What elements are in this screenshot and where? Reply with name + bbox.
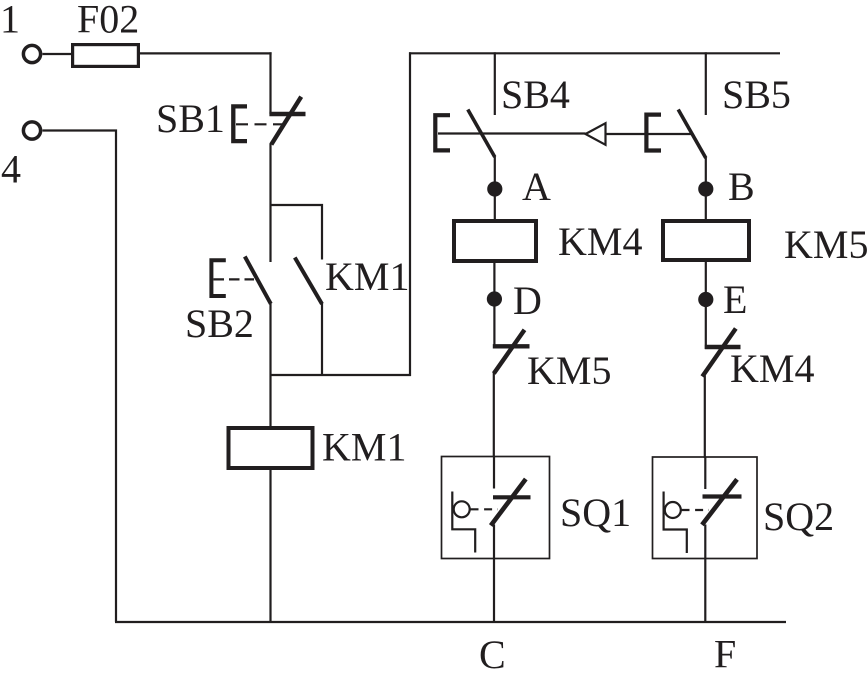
pushbutton SB1 xyxy=(233,97,305,145)
wire SB5 to node B xyxy=(705,158,707,221)
svg-text:B: B xyxy=(728,164,755,209)
svg-text:KM1: KM1 xyxy=(322,425,406,470)
wire KM4 contact to SQ2 xyxy=(704,376,706,459)
wire SB1 to branch xyxy=(269,144,271,263)
wire fuse to SB1 corner xyxy=(139,52,272,54)
wire KM1 contact bottom xyxy=(321,304,323,377)
wire coil KM1 to bottom bus xyxy=(269,470,271,623)
svg-text:F: F xyxy=(714,632,736,674)
svg-text:4: 4 xyxy=(1,147,21,192)
svg-text:KM5: KM5 xyxy=(784,222,868,267)
svg-text:1: 1 xyxy=(0,0,20,42)
wire KM5 to node E xyxy=(705,260,707,349)
terminal 1 xyxy=(23,45,40,62)
node B xyxy=(698,181,713,196)
limit switch SQ2 xyxy=(653,457,758,559)
svg-text:SB4: SB4 xyxy=(501,72,570,117)
wire SB4 to node A xyxy=(494,157,496,221)
svg-text:SB5: SB5 xyxy=(722,72,791,117)
wire SB4 drop xyxy=(494,52,496,115)
node D xyxy=(487,291,502,306)
wire SB2 bottom to coil xyxy=(269,304,271,428)
pushbutton SB4 xyxy=(435,110,495,158)
svg-text:C: C xyxy=(479,632,506,674)
mechanical linkage SB5 side xyxy=(606,133,693,135)
svg-text:KM4: KM4 xyxy=(558,219,642,264)
coil KM5 xyxy=(663,221,749,260)
svg-text:SB2: SB2 xyxy=(185,301,254,346)
coil KM4 xyxy=(454,221,536,261)
wire terminal1 to fuse xyxy=(43,53,73,55)
svg-text:A: A xyxy=(522,164,551,209)
wire KM5 contact to SQ1 xyxy=(493,373,495,458)
svg-text:D: D xyxy=(513,278,542,323)
mechanical linkage SB4 side xyxy=(438,132,586,134)
node A xyxy=(487,181,502,196)
svg-text:SB1: SB1 xyxy=(156,96,225,141)
limit switch SQ1 xyxy=(442,457,550,559)
svg-text:SQ1: SQ1 xyxy=(560,490,631,535)
wire branch top xyxy=(270,205,323,260)
coil KM1 xyxy=(229,428,313,468)
pushbutton SB2 xyxy=(211,257,270,304)
wire junction to right riser xyxy=(270,374,412,376)
fuse F02 xyxy=(73,45,139,67)
svg-text:F02: F02 xyxy=(77,0,139,42)
bottom bus wire xyxy=(115,621,786,623)
node E xyxy=(698,292,713,307)
svg-text:E: E xyxy=(723,277,747,322)
contact KM5 normally-closed xyxy=(493,330,530,374)
wire terminal 4 to left riser xyxy=(43,131,117,623)
wire right riser xyxy=(409,52,411,376)
wire KM4 to node D xyxy=(493,263,495,348)
terminal 4 xyxy=(23,122,40,139)
svg-text:KM5: KM5 xyxy=(527,348,611,393)
svg-text:SQ2: SQ2 xyxy=(763,494,834,539)
wire SQ2 to bottom bus xyxy=(704,525,706,624)
wire SQ1 to bottom bus xyxy=(493,525,495,624)
svg-text:KM1: KM1 xyxy=(325,254,409,299)
contact KM1 auxiliary xyxy=(295,258,322,305)
contact KM4 normally-closed xyxy=(702,329,740,377)
interlock arrow xyxy=(586,123,606,145)
top bus right xyxy=(409,52,780,54)
wire SB1 top segment xyxy=(269,52,271,114)
svg-text:KM4: KM4 xyxy=(730,346,814,391)
pushbutton SB5 xyxy=(646,110,705,159)
wire SB5 drop xyxy=(705,52,707,115)
